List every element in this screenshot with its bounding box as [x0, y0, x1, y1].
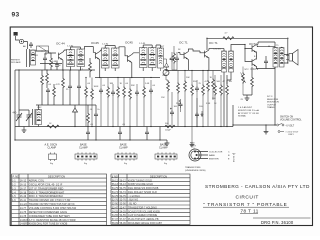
aerial plug: [14, 32, 18, 36]
svg-text:1-3: 1-3: [12, 187, 16, 190]
svg-text:18K: 18K: [110, 83, 114, 85]
svg-text:: BLK NO: : BLK NO: [128, 199, 138, 202]
svg-text:.01: .01: [44, 54, 48, 56]
svg-text:78 T 11: 78 T 11: [241, 209, 259, 214]
IF transformer T3a: [140, 47, 148, 67]
resistor R17: [191, 84, 194, 96]
gang capacitor VC1: [16, 110, 32, 127]
svg-text:14-BRD: 14-BRD: [20, 223, 29, 226]
resistor R8: [107, 86, 110, 98]
svg-text:390: 390: [193, 81, 197, 83]
output transformer T5b: [280, 47, 285, 67]
wire rail drop left: [206, 38, 208, 50]
svg-text:KNOB TUNING GOLD: KNOB TUNING GOLD: [128, 179, 152, 182]
svg-text:DESCRIPTION: DESCRIPTION: [150, 175, 167, 178]
svg-text:.04: .04: [48, 84, 52, 86]
svg-text:16-17: 16-17: [20, 187, 27, 190]
wire output bias: [208, 70, 221, 127]
svg-text:(UNDERSIDE VIEW): (UNDERSIDE VIEW): [185, 170, 206, 172]
svg-text:1-5: 1-5: [12, 195, 16, 198]
svg-text:MOUNT ON: MOUNT ON: [267, 102, 279, 104]
svg-text:AERIAL COIL: AERIAL COIL: [29, 180, 45, 183]
svg-text:1K: 1K: [210, 77, 213, 79]
supply rail top: [207, 37, 287, 39]
wire L1 to base: [36, 51, 57, 53]
wire audio bias: [185, 70, 203, 127]
diode osc: [73, 108, 78, 112]
wire T4 sec to output bases: [231, 45, 252, 62]
wire rail to T5: [287, 38, 289, 54]
svg-text:.04: .04: [152, 85, 156, 87]
capacitor C6: [99, 88, 103, 94]
svg-text:560: 560: [217, 81, 221, 83]
parts table right: [111, 174, 190, 224]
svg-text:COLLECTOR: COLLECTOR: [209, 152, 223, 154]
svg-text:SCALE FOR VOLUME KNOB: SCALE FOR VOLUME KNOB: [128, 210, 160, 213]
svg-text:100: 100: [174, 106, 178, 108]
resistor R15: [173, 52, 176, 64]
svg-text:52-75: 52-75: [112, 195, 119, 198]
svg-text:OC45: OC45: [91, 41, 99, 45]
svg-text:100: 100: [199, 106, 203, 108]
resistor R28 on rail: [165, 125, 175, 128]
svg-text:1ST I.F. TRANSFORMER RED: 1ST I.F. TRANSFORMER RED: [29, 187, 64, 190]
svg-text:16-18: 16-18: [20, 191, 27, 194]
svg-text:TRANSISTOR 7 HOLDING: TRANSISTOR 7 HOLDING: [128, 207, 157, 210]
resistor R16: [184, 80, 187, 92]
wire audio in: [166, 46, 174, 127]
svg-text:SIGNAL: SIGNAL: [238, 115, 247, 118]
svg-text:93: 93: [12, 12, 20, 19]
svg-text:TRANSF OUTPUT 500CT/15 TAP 4R: TRANSF OUTPUT 500CT/15 TAP 4R VC: [29, 203, 75, 206]
wire Q3 leads: [132, 53, 139, 78]
loudspeaker LS: [286, 50, 298, 66]
svg-text:14-BAT: 14-BAT: [20, 219, 29, 222]
rail converter upper: [40, 63, 62, 65]
wire T3 links: [143, 45, 152, 71]
capacitor C5: [118, 130, 122, 136]
svg-text:16-12: 16-12: [20, 180, 27, 183]
svg-text:.04: .04: [87, 83, 91, 85]
resistor R25: [226, 84, 229, 96]
svg-text:OSC: OSC: [37, 107, 42, 109]
svg-text:52-76: 52-76: [120, 199, 127, 202]
trimmer box: [37, 46, 49, 51]
wire T2 links: [105, 46, 115, 72]
parts table left: [12, 174, 107, 225]
svg-text:ROD AER.: ROD AER.: [11, 61, 21, 64]
svg-text:Fig: Fig: [50, 163, 54, 165]
wire T4 links: [224, 49, 231, 127]
svg-text:KNOB DIAL FOR TUNE BY KNOB: KNOB DIAL FOR TUNE BY KNOB: [29, 223, 68, 226]
svg-text:14-1/2: 14-1/2: [20, 203, 28, 206]
trimmer TC1: [19, 39, 23, 43]
rail audio emitter: [166, 70, 221, 72]
svg-text:CLAMP: CLAMP: [79, 146, 88, 149]
transistor Q3 OC45: [127, 55, 131, 63]
svg-text:52-47: 52-47: [120, 207, 127, 210]
svg-text:54-75: 54-75: [112, 187, 119, 190]
svg-text:: 1 1/2 BLU: : 1 1/2 BLU: [128, 195, 140, 198]
resistor R23: [41, 74, 44, 86]
svg-text:1-1: 1-1: [12, 180, 16, 183]
diode D1 OA79: [164, 59, 168, 70]
svg-text:1.2 4Ω: 1.2 4Ω: [67, 46, 74, 48]
driver transformer T4a: [222, 51, 227, 72]
rail oscillator: [36, 104, 96, 106]
svg-text:RESISTOR: RESISTOR: [267, 99, 279, 101]
svg-text:SPOT: SPOT: [190, 145, 197, 147]
wire feedback vertical: [233, 67, 275, 127]
wire converter bias: [47, 70, 70, 105]
clamp base 1: [75, 152, 97, 160]
capacitor C8: [135, 90, 139, 96]
svg-text:CONDENSER TUBE FOR BATTERY: CONDENSER TUBE FOR BATTERY: [29, 215, 71, 218]
svg-text:DIAL WAVE S/S FOR KNOB: DIAL WAVE S/S FOR KNOB: [128, 187, 159, 190]
svg-text:CLIP COVERED CHROME: CLIP COVERED CHROME: [128, 214, 157, 217]
wire T1 links: [71, 47, 81, 70]
svg-text:MOULDED GRILLE FOR CABT: MOULDED GRILLE FOR CABT: [128, 222, 162, 225]
svg-text:TRANSF DRIVER 10K CT/2K CT 3: TRANSF DRIVER 10K CT/2K CT 3W: [29, 199, 71, 202]
svg-text:OA79: OA79: [162, 74, 168, 77]
svg-text:3.9K: 3.9K: [206, 103, 211, 105]
svg-text:DET: DET: [160, 46, 165, 48]
svg-text:58-09: 58-09: [112, 222, 119, 225]
svg-text:1-4: 1-4: [12, 191, 16, 194]
transistor Q6 OC72 upper: [252, 45, 256, 53]
svg-text:47: 47: [223, 81, 226, 83]
capacitor C14: [55, 63, 59, 69]
AVC rail: [15, 139, 167, 141]
svg-text:.05: .05: [90, 124, 94, 126]
svg-text:4.7K: 4.7K: [205, 81, 210, 83]
svg-text:1 & 2 ADJUST: 1 & 2 ADJUST: [238, 106, 253, 109]
svg-text:10K: 10K: [186, 77, 190, 79]
wire trimmer to coil: [24, 42, 28, 50]
svg-text:OC45: OC45: [125, 41, 133, 45]
resistor R21: [220, 84, 223, 96]
resistor R7: [91, 88, 94, 100]
wire L2: [38, 105, 40, 127]
svg-text:OC 71: OC 71: [209, 41, 218, 45]
svg-text:RED: RED: [190, 143, 195, 145]
IF transformer T1b: [77, 49, 85, 67]
resistor R24: [87, 112, 90, 124]
capacitor C12: [195, 86, 199, 92]
svg-text:54-29: 54-29: [120, 210, 127, 213]
svg-text:N.T.C.: N.T.C.: [267, 96, 273, 98]
svg-text:25µF: 25µF: [176, 103, 182, 105]
svg-text:56-13: 56-13: [112, 183, 119, 186]
drawing border frame: [10, 27, 312, 226]
svg-text:56-13: 56-13: [120, 183, 127, 186]
output transformer T5a: [273, 47, 278, 67]
wire battery line: [233, 124, 276, 126]
wire conv bias top: [45, 53, 51, 70]
wire C14: [56, 61, 58, 71]
svg-text:" TRANSISTOR 7 " PORTABLE: " TRANSISTOR 7 " PORTABLE: [203, 202, 288, 207]
wire Q2 leads: [100, 50, 102, 78]
svg-text:5.6K: 5.6K: [52, 61, 57, 63]
wire Q4 leads: [178, 49, 193, 70]
svg-text:BASE: BASE: [209, 154, 215, 157]
wire output stage: [256, 42, 275, 69]
wire detector: [161, 52, 178, 71]
wire avc drops: [15, 70, 160, 140]
wire Q5 leads: [193, 49, 209, 71]
wire gang to aerial: [18, 70, 20, 110]
resistor R2: [53, 86, 56, 98]
resistor R9: [117, 86, 120, 98]
svg-text:ONLY: ONLY: [288, 134, 294, 136]
IF transformer T2b: [112, 48, 120, 68]
svg-text:E: E: [228, 159, 230, 161]
svg-text:8+: 8+: [98, 109, 101, 111]
value labels: [23, 43, 279, 126]
svg-text:VOLUME CONTROL: VOLUME CONTROL: [280, 120, 302, 122]
resistor R14 on rail: [223, 37, 234, 40]
svg-text:Fig: Fig: [84, 163, 88, 165]
svg-text:.05: .05: [122, 124, 126, 126]
svg-text:1K: 1K: [49, 123, 52, 125]
svg-text:.04: .04: [125, 83, 129, 85]
rail IF emitter: [95, 77, 160, 79]
svg-text:CLAMP: CLAMP: [159, 146, 168, 149]
resistor R1: [46, 72, 49, 84]
wire C15: [78, 70, 80, 105]
svg-text:5K: 5K: [178, 49, 181, 51]
svg-text:- 6 VOLT: - 6 VOLT: [285, 125, 295, 127]
svg-text:.04: .04: [102, 85, 106, 87]
electrolytic C21: [179, 102, 183, 108]
svg-text:54-74: 54-74: [120, 191, 127, 194]
svg-text:Fig: Fig: [164, 163, 168, 165]
svg-text:T5: T5: [276, 45, 279, 47]
svg-text:DIAL DOLLEY S/SCR CLR: DIAL DOLLEY S/SCR CLR: [128, 191, 157, 194]
resistor R6: [85, 86, 88, 98]
svg-text:.25: .25: [240, 99, 244, 101]
resistor R26 NTC: [242, 72, 245, 84]
wire c4c5: [88, 127, 120, 141]
wire L3 top: [156, 45, 161, 48]
capacitor C19: [264, 59, 268, 65]
transistor underside view: [189, 149, 208, 161]
electrolytic C18: [195, 112, 199, 118]
svg-text:.04: .04: [58, 65, 62, 67]
transistor Q2 OC45: [95, 52, 99, 60]
svg-text:£ NO: £ NO: [112, 175, 118, 178]
svg-text:54-74: 54-74: [112, 191, 119, 194]
resistor R10: [123, 86, 126, 98]
svg-text:MUTE: MUTE: [234, 155, 236, 162]
svg-text:PLUG TOP EXT. AERIAL PB: PLUG TOP EXT. AERIAL PB: [128, 218, 159, 221]
svg-text:C: C: [228, 152, 230, 154]
wire Q5 collector to T4: [209, 48, 224, 50]
svg-text:52-47: 52-47: [112, 207, 119, 210]
svg-text:58-09: 58-09: [120, 222, 127, 225]
svg-text:DETECTOR CONDENSER GANG: DETECTOR CONDENSER GANG: [29, 211, 67, 214]
ground battery: [264, 130, 269, 134]
svg-text:25: 25: [199, 83, 202, 85]
svg-text:OC 71: OC 71: [179, 41, 188, 45]
wire Q1 emitter: [62, 60, 64, 70]
IF transformer T2a: [102, 48, 110, 68]
svg-text:EMITTER: EMITTER: [209, 159, 219, 161]
svg-text:52-90: 52-90: [112, 203, 119, 206]
transistor Q1 OC44: [59, 52, 63, 60]
svg-text:52-90: 52-90: [120, 203, 127, 206]
wire Q1 collector: [63, 50, 67, 52]
capacitor C16: [94, 112, 98, 118]
svg-text:52-76: 52-76: [112, 199, 119, 202]
svg-text:8.2: 8.2: [254, 56, 258, 58]
svg-text:: BL NO: : BL NO: [128, 203, 137, 206]
svg-text:100K: 100K: [94, 86, 99, 88]
svg-text:54-29: 54-29: [112, 210, 119, 213]
resistor R11: [129, 88, 132, 100]
svg-text:25: 25: [66, 89, 69, 91]
resistor R4 on rail: [47, 125, 59, 128]
svg-text:OC72: OC72: [249, 42, 257, 46]
wire R5: [89, 58, 91, 78]
svg-text:500: 500: [165, 123, 169, 125]
resistor R13: [167, 80, 170, 92]
resistor R27: [251, 76, 254, 88]
resistor R5: [89, 61, 92, 73]
svg-text:33K: 33K: [131, 85, 135, 87]
resistor R30: [212, 78, 215, 90]
ground output: [245, 96, 250, 100]
oscillator coil L2: [33, 109, 36, 125]
svg-text:.01: .01: [90, 109, 94, 111]
transistor Q7 OC72 lower: [252, 59, 256, 67]
svg-text:100µF: 100µF: [165, 130, 171, 132]
switch S1: [277, 123, 285, 132]
capacitor C20: [145, 130, 149, 136]
capacitor C15: [77, 84, 81, 90]
svg-text:57-37: 57-37: [112, 218, 119, 221]
svg-text:14-78: 14-78: [20, 215, 27, 218]
svg-text:56-12: 56-12: [112, 179, 119, 182]
transistor Q5 OC71: [205, 50, 209, 58]
svg-text:CLAMP: CLAMP: [119, 146, 128, 149]
svg-text:# 4 1/2 VOLT: # 4 1/2 VOLT: [286, 131, 300, 133]
resistor R18: [202, 84, 205, 96]
capacitor C3: [68, 84, 72, 90]
svg-text:14-77: 14-77: [20, 207, 27, 210]
svg-text:1-6: 1-6: [12, 199, 16, 202]
svg-text:"X": "X": [232, 152, 236, 156]
svg-text:57-37: 57-37: [120, 218, 127, 221]
detector winding L3: [158, 48, 164, 68]
svg-text:AE: AE: [23, 45, 26, 48]
wire osc drop: [74, 105, 76, 127]
svg-text:4.7: 4.7: [225, 33, 229, 35]
IF transformer T3b: [149, 47, 157, 67]
svg-text:DESCRIPTION: DESCRIPTION: [48, 176, 65, 179]
svg-text:1K: 1K: [120, 83, 123, 85]
svg-text:CIRCUIT: CIRCUIT: [236, 195, 259, 201]
capacitor C13: [43, 56, 47, 62]
svg-text:M1: M1: [35, 55, 39, 57]
capacitor C1: [29, 42, 33, 48]
capacitor C11: [175, 56, 179, 62]
bottom rail earth: [15, 126, 233, 128]
svg-text:1.2 4Ω: 1.2 4Ω: [102, 44, 109, 46]
svg-text:16-11: 16-11: [20, 199, 27, 202]
svg-text:Fig: Fig: [124, 163, 128, 165]
wire T1 sec to Q2 base: [85, 47, 96, 53]
clamp base 2: [115, 152, 137, 160]
capacitor C2: [46, 88, 50, 94]
resistor R22: [50, 57, 53, 69]
svg-text:TRANS: TRANS: [267, 106, 275, 109]
svg-text:2ND I.F. TRANSFORMER WHT: 2ND I.F. TRANSFORMER WHT: [29, 191, 65, 194]
wire IF bias: [86, 78, 118, 127]
svg-text:VOLUME CONTROL 5,000 OHM 7MA: VOLUME CONTROL 5,000 OHM 7MA SW: [29, 207, 77, 210]
svg-text:15K: 15K: [161, 97, 165, 99]
svg-text:54-55: 54-55: [112, 214, 119, 217]
resistor R12: [143, 86, 146, 98]
transistor Q4 OC71: [184, 52, 188, 60]
rail converter emitter: [15, 69, 95, 71]
ground mid: [190, 143, 195, 147]
svg-text:STROMBERG - CARLSON A/SIA P: STROMBERG - CARLSON A/SIA PTY LTD: [205, 184, 310, 189]
svg-text:52-75: 52-75: [120, 195, 127, 198]
svg-text:MOUNT FOR 2.5 mA: MOUNT FOR 2.5 mA: [238, 109, 259, 112]
wire T5 sec: [284, 55, 288, 64]
svg-text:100: 100: [229, 81, 233, 83]
svg-text:A.T.C. RESISTOR INLINE 4B 16: A.T.C. RESISTOR INLINE 4B 160-V 500R: [29, 219, 76, 222]
clamp AE OSCN: [49, 152, 57, 161]
arrow point X: [201, 111, 203, 117]
capacitor C9: [149, 88, 153, 94]
resistor R19: [207, 80, 210, 92]
svg-text:16-19: 16-19: [20, 195, 27, 198]
svg-text:P. NO: P. NO: [13, 176, 20, 179]
svg-text:AT POINT "X" OF NO: AT POINT "X" OF NO: [238, 112, 259, 115]
svg-text:KNOB VOLUME GOLD: KNOB VOLUME GOLD: [128, 183, 153, 186]
title block line: [253, 217, 311, 219]
svg-text:1-2: 1-2: [12, 183, 16, 186]
svg-text:DRG P.N. 36100: DRG P.N. 36100: [261, 220, 294, 225]
svg-text:54-55: 54-55: [120, 214, 127, 217]
svg-text:OC 44: OC 44: [56, 42, 65, 46]
svg-text:1.2 4Ω: 1.2 4Ω: [139, 43, 146, 45]
svg-text:NTC: NTC: [245, 69, 250, 71]
svg-text:56-12: 56-12: [120, 179, 127, 182]
ground gang: [22, 128, 27, 132]
electrolytic C17: [170, 110, 174, 116]
svg-text:OUTPUT: OUTPUT: [267, 104, 277, 106]
wire aerial lead: [16, 36, 20, 40]
resistor R20: [214, 84, 217, 96]
svg-text:B: B: [228, 155, 230, 157]
svg-text:5.6K: 5.6K: [145, 83, 150, 85]
svg-text:4.7K: 4.7K: [56, 84, 61, 86]
svg-text:16-13: 16-13: [20, 183, 27, 186]
resistor R29: [177, 82, 180, 94]
wire R23: [41, 70, 43, 105]
svg-text:TRANSISTORS: TRANSISTORS: [185, 166, 201, 169]
svg-text:L.S. 4.5: L.S. 4.5: [214, 49, 222, 51]
capacitor C4: [86, 130, 90, 136]
svg-text:SWITCH ON: SWITCH ON: [280, 117, 293, 119]
volume control VR1: [163, 70, 169, 76]
svg-text:CLAMP: CLAMP: [48, 146, 57, 149]
capacitor C10: [170, 56, 174, 62]
svg-text:1K: 1K: [214, 103, 217, 105]
